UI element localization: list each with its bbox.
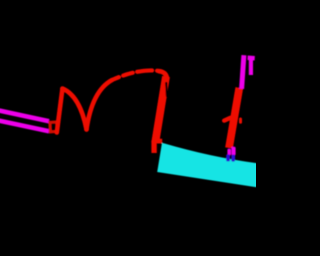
node A: dark red square junction bbox=[50, 122, 57, 132]
slot: black gap inside bar bbox=[165, 83, 168, 97]
wire: elbow into bar bbox=[159, 71, 167, 78]
wire: red fin arc 2 solid part bbox=[87, 80, 113, 130]
wire: red steep line bbox=[57, 89, 63, 133]
wire: magenta vertical bar top right bbox=[242, 55, 244, 89]
resistor: right red vertical bar bbox=[229, 88, 239, 148]
wire: magenta lower line left bbox=[0, 121, 49, 132]
capacitor: cyan plate bbox=[157, 143, 257, 188]
wire: red arc dashed top bbox=[112, 70, 161, 80]
wire: red fin arc 1 bbox=[62, 89, 86, 130]
hook tooth bbox=[157, 139, 162, 144]
node D: blue dot 1 bbox=[226, 154, 230, 161]
wire: magenta gamma vertical bbox=[249, 60, 253, 76]
hook: bar bottom left column bbox=[151, 141, 156, 153]
node E: blue dot 2 bbox=[231, 155, 235, 162]
node C: magenta dot 2 bbox=[231, 147, 235, 156]
wire: magenta upper line left bbox=[0, 111, 49, 122]
node B: magenta dot 1 bbox=[227, 149, 231, 156]
wire: magenta gamma horizontal bbox=[248, 56, 255, 61]
pin: tiny dash right of bar bbox=[239, 119, 242, 122]
resistor: middle red vertical bar bbox=[155, 77, 166, 143]
pin: left tick on right bar bbox=[224, 118, 230, 121]
